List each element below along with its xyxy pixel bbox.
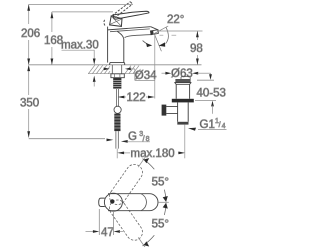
svg-text:/: / — [219, 122, 221, 129]
dimension max.180 — [117, 152, 185, 155]
dimension 47 — [86, 209, 124, 235]
svg-text:Ø34: Ø34 — [135, 70, 157, 82]
connection rod — [116, 89, 118, 106]
dimension 40-53 — [195, 73, 216, 114]
faucet raised handle dashed — [104, 2, 133, 27]
55deg radial lines — [138, 156, 146, 168]
drain axis extension — [184, 125, 186, 159]
55 deg arc upper — [143, 159, 155, 170]
seal ring — [172, 99, 194, 103]
extension line spout outlet — [154, 35, 156, 99]
extension line top (raised handle height) — [29, 3, 133, 5]
flow line and arrow at outlet — [155, 35, 162, 51]
svg-text:max.30: max.30 — [61, 40, 99, 52]
svg-text:40-53: 40-53 — [197, 88, 226, 100]
svg-text:350: 350 — [20, 98, 39, 110]
svg-text:max.180: max.180 — [131, 148, 175, 160]
dimension diam63 — [162, 72, 211, 75]
threaded section — [113, 78, 121, 89]
inner end cap — [141, 194, 147, 211]
55 deg arc lower — [143, 235, 155, 246]
svg-text:Ø63: Ø63 — [171, 68, 193, 80]
hose joint circle — [114, 106, 121, 113]
svg-text:98: 98 — [190, 43, 203, 55]
svg-text:55°: 55° — [152, 219, 169, 231]
body right edge — [117, 31, 124, 62]
deck hatched section — [88, 65, 141, 74]
escutcheon — [110, 62, 125, 65]
dashed handle rotated down 55 — [106, 197, 145, 244]
dimension 168 — [51, 12, 54, 65]
side outlet pipe — [166, 107, 177, 114]
dimension 206 — [27, 4, 30, 64]
dimension 122 — [118, 96, 155, 99]
max30 arrows — [93, 50, 96, 86]
extension line handle rest top — [52, 11, 113, 13]
22 degree arc — [166, 27, 169, 43]
threaded stud G3/8 — [114, 114, 120, 132]
svg-text:206: 206 — [21, 28, 40, 40]
upper body — [176, 84, 189, 99]
top view — [99, 156, 169, 247]
spout top — [108, 27, 151, 30]
aerator — [151, 27, 159, 34]
pop-up waste drain — [162, 77, 194, 125]
faucet handle lever — [113, 11, 149, 19]
svg-text:122: 122 — [127, 92, 146, 104]
handle pill top view — [108, 194, 158, 211]
dimension 350 — [27, 65, 30, 138]
plug top — [175, 79, 190, 82]
svg-text:4: 4 — [222, 123, 226, 130]
svg-text:22°: 22° — [167, 14, 184, 26]
handle knuckle — [110, 16, 122, 27]
spout tab — [99, 198, 105, 206]
lower body — [178, 103, 189, 122]
bottom cap — [177, 122, 188, 125]
svg-text:55°: 55° — [152, 177, 169, 189]
axis extension for max180 — [116, 149, 118, 159]
hose tail — [115, 131, 117, 149]
extension line hose end — [29, 138, 105, 140]
shank through deck — [111, 65, 113, 74]
spout underside — [125, 35, 151, 38]
plug knob — [181, 77, 190, 79]
G3/8 stud arrows — [107, 139, 114, 142]
22 deg leader — [153, 26, 168, 34]
dimension 98 — [159, 30, 203, 32]
dashed handle rotated up 55 — [106, 161, 145, 208]
mounting nut — [111, 74, 124, 78]
outlet datum dashes — [160, 34, 177, 36]
pivot dot — [110, 199, 114, 203]
svg-text:47: 47 — [101, 227, 114, 239]
deck surface line — [29, 64, 202, 66]
axis line right — [158, 201, 169, 203]
base circle — [104, 193, 122, 211]
svg-text:G: G — [128, 131, 137, 143]
faucet body outline — [107, 27, 109, 63]
